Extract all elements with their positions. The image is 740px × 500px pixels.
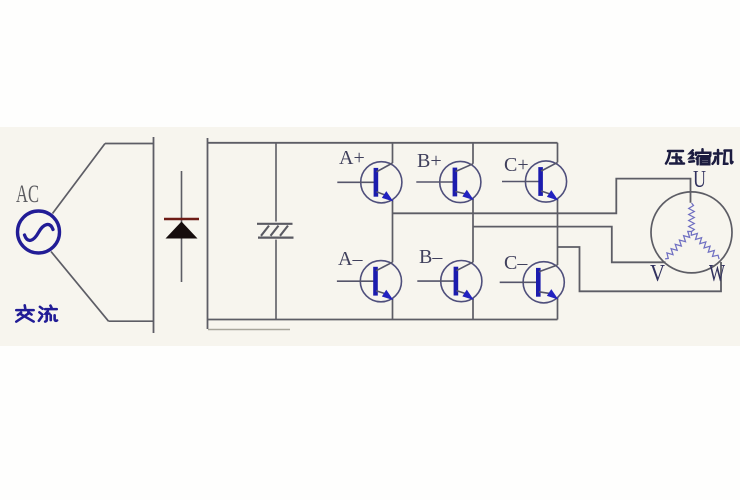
transistor Q3 (B+) (416, 161, 481, 202)
svg-text:C+: C+ (504, 154, 529, 176)
transistor Q6 (C-) (500, 262, 565, 303)
capacitor C1 top lead (275, 143, 277, 222)
capacitor C1 bottom lead (275, 240, 277, 320)
capacitor C1 hatch strokes (261, 226, 288, 236)
capacitor C1 bottom plate (258, 237, 294, 239)
wire: faint stub below bottom rail (208, 329, 290, 331)
label 压缩机 (compressor) drawn strokes (666, 149, 733, 164)
wire: top rail (208, 142, 558, 144)
wire: funnel bottom horizontal (109, 320, 155, 322)
svg-text:C–: C– (504, 252, 528, 274)
wire: funnel top diagonal (53, 144, 106, 214)
wire: DC bus vertical 1 (153, 137, 155, 333)
svg-text:A–: A– (338, 248, 363, 270)
paper band background (0, 127, 740, 346)
motor winding W (zigzag) (690, 230, 722, 262)
wire: phase column B segments (472, 143, 474, 320)
wire: phase column C segments (557, 143, 559, 320)
svg-text:A+: A+ (339, 147, 365, 169)
motor winding V (zigzag) (663, 230, 693, 261)
wire: DC bus vertical 2 (inverter left edge) (207, 138, 209, 329)
svg-text:B+: B+ (417, 150, 442, 172)
wire: funnel bottom diagonal (51, 252, 109, 322)
diode D1 cathode bar (164, 218, 199, 221)
wire: bottom rail (208, 319, 558, 321)
AC sine wave (25, 224, 54, 240)
AC source circle V1 (18, 211, 60, 253)
transistor Q2 (A-) (337, 261, 402, 303)
svg-text:AC: AC (16, 181, 39, 208)
motor M1 circle (651, 192, 732, 273)
diode D1 anode triangle (166, 222, 198, 239)
wire: funnel top horizontal (105, 143, 154, 145)
wire: U phase output (393, 179, 691, 214)
wire: W phase output (558, 247, 722, 291)
wire: phase column A segments (392, 143, 394, 320)
transistor Q1 (A+) (337, 162, 402, 205)
motor winding U (zigzag) (689, 203, 695, 232)
capacitor C1 top plate (257, 223, 293, 225)
svg-text:U: U (693, 167, 706, 193)
diode D1 lead wire (181, 171, 183, 282)
svg-text:W: W (709, 261, 725, 287)
svg-text:V: V (650, 261, 666, 287)
svg-text:B–: B– (419, 246, 443, 268)
wire: V phase output (473, 227, 666, 263)
transistor Q5 (C+) (502, 161, 567, 203)
label 交流 (AC) drawn strokes (16, 305, 57, 321)
transistor Q4 (B-) (417, 261, 482, 303)
